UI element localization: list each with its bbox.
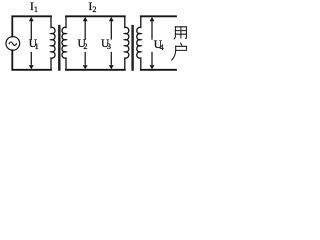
label I1 [30, 2, 38, 14]
voltage arrow U2 [83, 17, 88, 70]
label 用 (users char 1) [174, 27, 186, 39]
transformer T1 core [59, 26, 60, 71]
transformer T2 secondary winding [137, 16, 141, 70]
wire: loop1 top (source to T1 primary) [12, 16, 51, 36]
transformer T1 secondary winding [62, 16, 66, 70]
wire: loop1 bottom [12, 50, 51, 70]
label U4 [154, 40, 164, 52]
voltage arrow U3 [109, 17, 114, 70]
voltage arrow U4 [150, 17, 155, 70]
voltage arrow U1 [29, 17, 34, 70]
wire: loop3 top (to users) [141, 15, 176, 17]
wire: loop2 bottom [66, 69, 125, 71]
label U3 [101, 39, 111, 51]
label 户 (users char 2) [172, 43, 187, 60]
transformer T2 primary winding [125, 16, 129, 70]
transformer T2 core [132, 26, 133, 71]
wire: loop2 top (transmission line) [66, 15, 125, 17]
transformer T1 primary winding [51, 16, 55, 70]
label I2 [89, 2, 97, 14]
label U2 [78, 39, 88, 51]
label U1 [29, 39, 39, 51]
wire: loop3 bottom [141, 69, 176, 71]
ac source G [6, 37, 20, 51]
